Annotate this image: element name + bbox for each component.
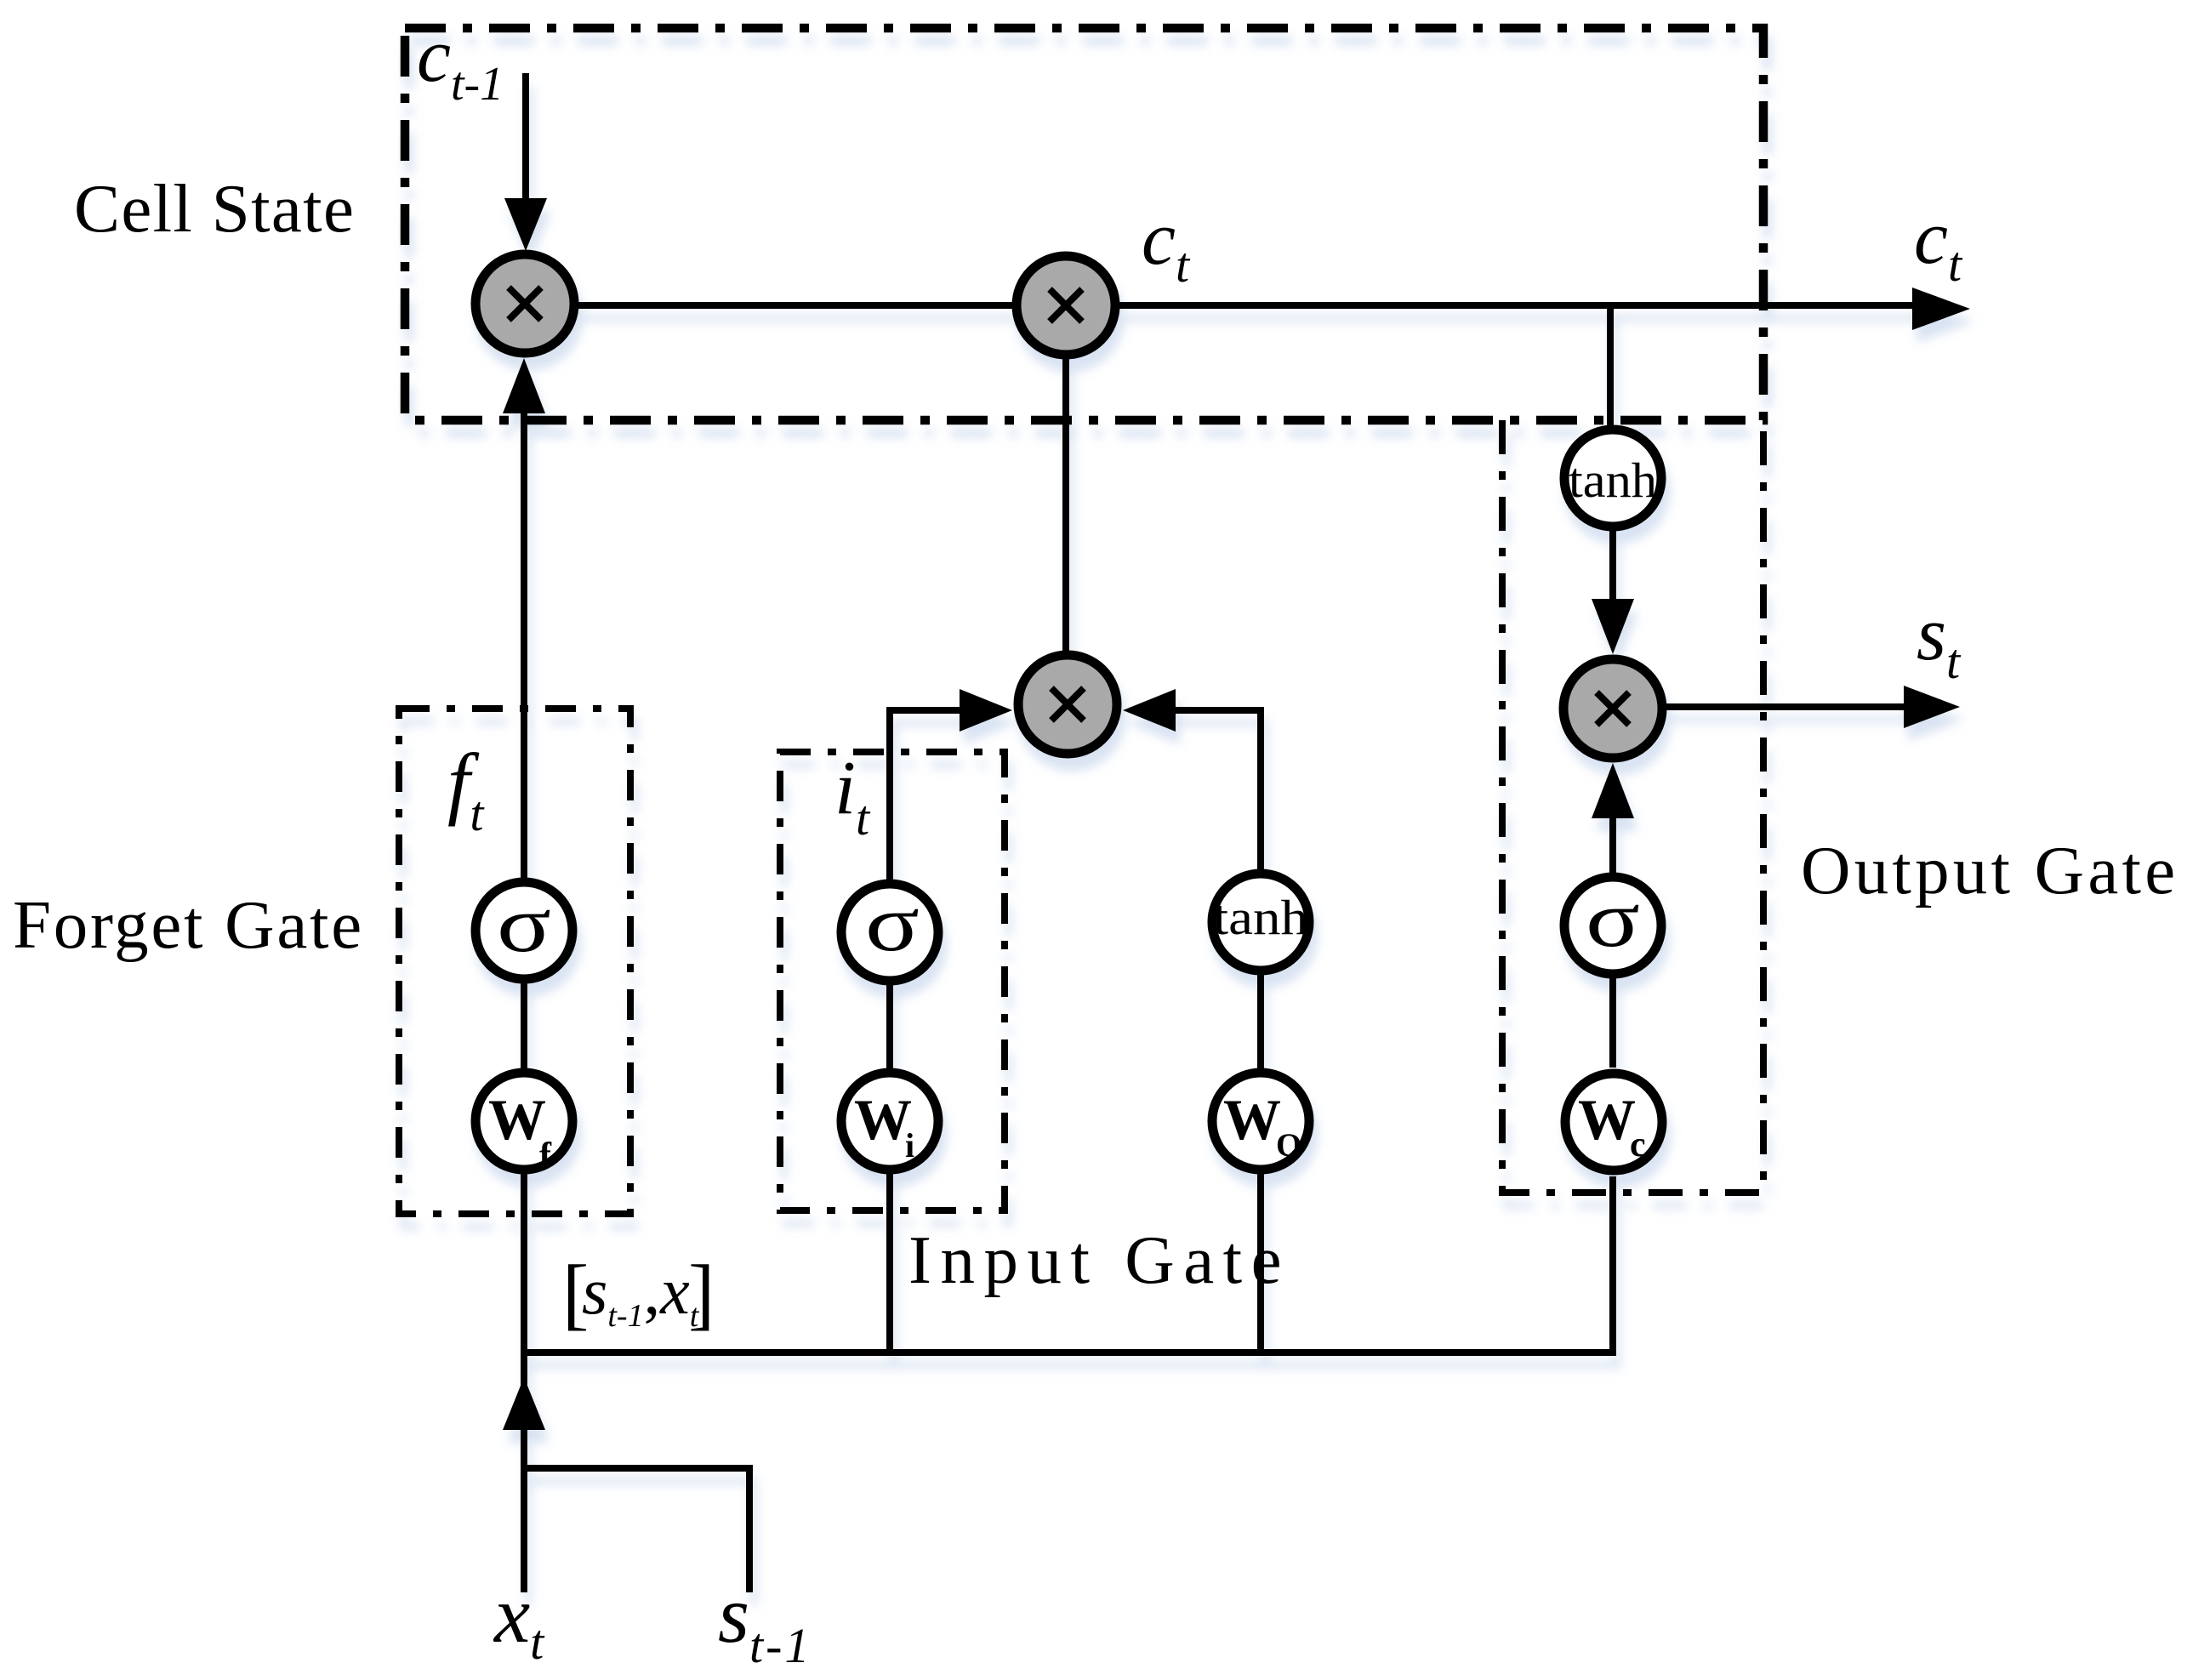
svg-text:ct: ct: [1142, 196, 1191, 293]
svg-text:σ: σ: [497, 880, 551, 969]
svg-text:it: it: [834, 746, 871, 846]
svg-text:st-1: st-1: [718, 1569, 812, 1673]
svg-text:xt: xt: [493, 1569, 545, 1670]
svg-text:tanh: tanh: [1569, 453, 1657, 508]
svg-text:ct: ct: [1914, 196, 1963, 292]
svg-text:Wc: Wc: [1578, 1087, 1646, 1165]
svg-text:σ: σ: [1586, 875, 1640, 964]
svg-text:st: st: [1916, 592, 1962, 689]
svg-text:Wi: Wi: [854, 1087, 914, 1165]
svg-text:Output Gate: Output Gate: [1801, 832, 2178, 908]
svg-text:Wf: Wf: [488, 1087, 552, 1176]
svg-text:]: ]: [688, 1250, 715, 1338]
svg-text:Forget Gate: Forget Gate: [13, 886, 364, 963]
svg-text:ct-1: ct-1: [417, 14, 504, 111]
svg-text:tanh: tanh: [1213, 890, 1308, 945]
svg-text:σ: σ: [865, 880, 920, 968]
svg-text:Input Gate: Input Gate: [908, 1222, 1290, 1298]
svg-text:st-1,xt: st-1,xt: [582, 1254, 700, 1334]
svg-text:WO: WO: [1223, 1087, 1301, 1164]
svg-text:ft: ft: [447, 737, 485, 841]
svg-text:Cell State: Cell State: [74, 170, 355, 247]
